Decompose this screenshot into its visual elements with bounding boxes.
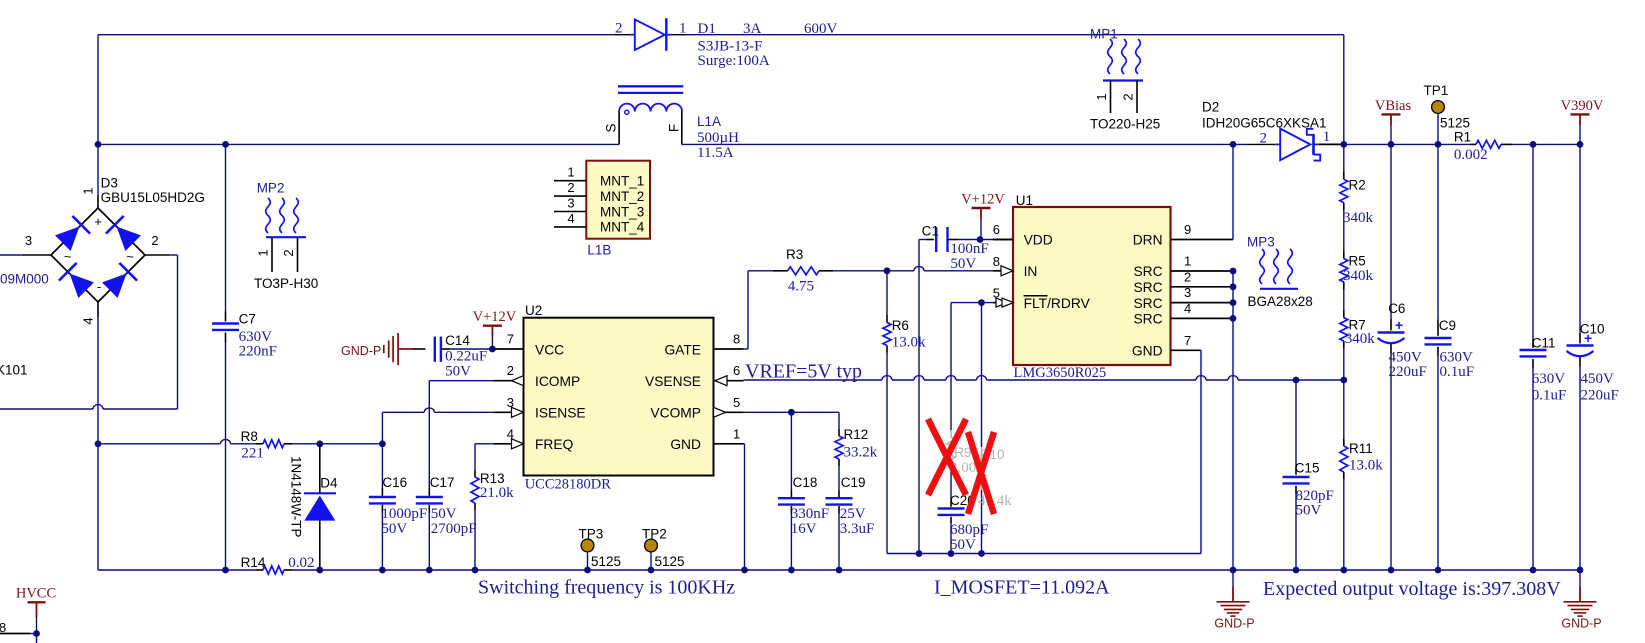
svg-text:UCC28180DR: UCC28180DR bbox=[525, 476, 612, 492]
pin 7 GND of U1 bbox=[1132, 333, 1201, 359]
part number LMG3650R025 bbox=[1014, 365, 1107, 381]
svg-text:Surge:100A: Surge:100A bbox=[698, 53, 770, 69]
svg-text:25V: 25V bbox=[840, 506, 866, 522]
resistor R14 bbox=[256, 566, 292, 574]
value 500uH bbox=[697, 130, 739, 146]
svg-text:V390V: V390V bbox=[1561, 98, 1604, 114]
pin 2 ICOMP of U2 bbox=[494, 363, 581, 389]
value Surge:100A bbox=[698, 53, 770, 69]
pin 2 of D2 bbox=[1260, 131, 1268, 147]
pin 3 SRC of U1 bbox=[1133, 285, 1233, 311]
wire: C10 vertical bbox=[1579, 144, 1581, 570]
capacitor C7 bbox=[212, 324, 239, 330]
wire: C16 vertical bbox=[381, 444, 383, 570]
value 820pF of C15 bbox=[1296, 488, 1334, 504]
wire: ISENSE net with hop bbox=[382, 408, 493, 444]
svg-text:GND-P: GND-P bbox=[1214, 617, 1254, 631]
junction bus at C6 bbox=[1388, 567, 1395, 574]
pin 4 SRC of U1 bbox=[1133, 301, 1233, 327]
label R2 bbox=[1349, 178, 1366, 193]
svg-text:GBU15L05HD2G: GBU15L05HD2G bbox=[101, 190, 205, 205]
resistor R7 bbox=[1340, 318, 1348, 341]
junction main rail at C7 bbox=[222, 141, 229, 148]
svg-text:FLT/RDRV: FLT/RDRV bbox=[1024, 296, 1091, 311]
wire: R6 vertical bbox=[886, 271, 888, 554]
svg-text:TO220-H25: TO220-H25 bbox=[1090, 116, 1160, 131]
svg-text:VCOMP: VCOMP bbox=[650, 406, 701, 421]
pin 3 of D3 bbox=[25, 233, 32, 248]
wire: FREQ net bbox=[475, 444, 494, 570]
wire: DRN riser bbox=[1232, 144, 1234, 239]
pin name MNT_1 bbox=[600, 174, 644, 189]
svg-text:C15: C15 bbox=[1295, 461, 1320, 476]
svg-text:3: 3 bbox=[567, 196, 574, 211]
svg-text:IDH20G65C6XKSA1: IDH20G65C6XKSA1 bbox=[1202, 116, 1327, 131]
label U2 bbox=[525, 303, 542, 318]
pin 2 of D3 bbox=[151, 233, 158, 248]
bridge rectifier D3 bbox=[22, 195, 169, 317]
svg-text:IN: IN bbox=[1024, 264, 1038, 279]
svg-text:C1: C1 bbox=[922, 223, 939, 238]
svg-text:0.1uF: 0.1uF bbox=[1440, 364, 1475, 380]
connector label K101 bbox=[0, 363, 28, 378]
pin 4 of L1B bbox=[554, 211, 586, 227]
svg-text:16V: 16V bbox=[791, 521, 817, 537]
diode D3 top-right bbox=[106, 216, 142, 252]
wire: top bus horizontal right of D1 bbox=[686, 34, 1344, 36]
junction R3/R6/IN node bbox=[884, 267, 891, 274]
label R1 bbox=[1454, 129, 1471, 144]
pin 1 GND of U2 bbox=[670, 426, 743, 452]
pin 4 FREQ of U2 bbox=[494, 426, 574, 452]
svg-text:R6: R6 bbox=[892, 318, 909, 333]
svg-text:MP1: MP1 bbox=[1090, 27, 1118, 42]
junction main rail at V390V bbox=[1577, 141, 1584, 148]
label C14 bbox=[445, 333, 470, 348]
svg-text:+: + bbox=[1395, 317, 1403, 333]
junction bus at C11 bbox=[1530, 567, 1537, 574]
label D3 bbox=[101, 175, 118, 190]
svg-text:MNT_4: MNT_4 bbox=[600, 220, 645, 235]
wire: top bus left vertical bbox=[97, 35, 99, 195]
junction bus at C19 bbox=[836, 567, 843, 574]
label R12 bbox=[844, 427, 869, 442]
svg-text:C16: C16 bbox=[382, 475, 407, 490]
junction bus at C15 bbox=[1293, 567, 1300, 574]
value 21.0k of R13 bbox=[480, 485, 514, 501]
svg-text:0.002: 0.002 bbox=[1454, 147, 1488, 163]
resistor R5 bbox=[1340, 259, 1348, 282]
label R3 bbox=[786, 247, 803, 262]
arrow ISENSE bbox=[512, 407, 524, 417]
svg-text:50V: 50V bbox=[950, 256, 976, 272]
connector L1B MNT block bbox=[586, 161, 650, 239]
svg-text:1N4148W-TP: 1N4148W-TP bbox=[289, 456, 304, 538]
value 630V of C7 bbox=[239, 329, 273, 345]
junction at C16 top bbox=[379, 440, 386, 447]
svg-text:340k: 340k bbox=[1343, 268, 1374, 284]
svg-text:220uF: 220uF bbox=[1389, 364, 1427, 380]
wire: R12/C19 vertical bbox=[838, 412, 840, 570]
mounting part MP1 bbox=[1090, 27, 1160, 132]
label R6 bbox=[892, 318, 909, 333]
junction bus at TP2 bbox=[648, 567, 655, 574]
svg-text:VCC: VCC bbox=[535, 342, 564, 357]
resistor R3 bbox=[773, 267, 833, 275]
value 0.02 of R14 bbox=[288, 555, 314, 571]
capacitor C20 bbox=[938, 509, 965, 515]
svg-text:VSENSE: VSENSE bbox=[645, 374, 701, 389]
svg-text:4: 4 bbox=[81, 317, 96, 324]
diode D3 bottom-left bbox=[59, 263, 95, 299]
resistor R11 bbox=[1340, 446, 1348, 472]
svg-text:220nF: 220nF bbox=[239, 343, 277, 359]
value 221 of R8 bbox=[241, 446, 264, 462]
junction main rail at DRN riser bbox=[1230, 141, 1237, 148]
wire: top bus right vertical bbox=[1343, 35, 1345, 145]
pin 1 of D3 bbox=[81, 187, 96, 194]
capacitor C11 bbox=[1520, 350, 1547, 356]
label D2 bbox=[1202, 100, 1219, 115]
value 0.1uF of C11 bbox=[1532, 388, 1567, 404]
test point TP1 bbox=[1432, 101, 1445, 145]
svg-text:R14: R14 bbox=[241, 555, 266, 570]
wire: C6 vertical bbox=[1390, 144, 1392, 570]
value GBU15L05HD2G bbox=[101, 190, 205, 205]
value 2.00k of R9 (gray) bbox=[950, 460, 984, 476]
svg-text:13.0k: 13.0k bbox=[1349, 457, 1383, 473]
net label VREF=5V typ bbox=[745, 360, 862, 382]
value 4.75 of R3 bbox=[788, 279, 814, 295]
svg-text:4: 4 bbox=[1184, 301, 1191, 316]
svg-text:C11: C11 bbox=[1532, 336, 1556, 351]
pin 6 VSENSE of U2 bbox=[645, 363, 743, 389]
svg-text:630V: 630V bbox=[1532, 371, 1566, 387]
pin 2 of D1 bbox=[615, 21, 623, 37]
wire: U1 GND loop bbox=[1200, 350, 1203, 553]
svg-text:ICOMP: ICOMP bbox=[535, 374, 580, 389]
resistor R12 bbox=[835, 436, 843, 459]
capacitor C9 bbox=[1425, 338, 1452, 344]
label R14 bbox=[241, 555, 266, 570]
svg-text:LMG3650R025: LMG3650R025 bbox=[1014, 365, 1107, 381]
junction VCOMP at C18 bbox=[788, 409, 795, 416]
value 50V of C15 bbox=[1296, 502, 1322, 518]
wire: bridge negative vertical bbox=[97, 317, 99, 570]
label R11 bbox=[1349, 441, 1373, 456]
svg-text:500µH: 500µH bbox=[697, 130, 739, 146]
capacitor C19 bbox=[826, 498, 853, 504]
wire: GATE riser bbox=[744, 271, 749, 349]
value 5125 of TP2 bbox=[655, 554, 685, 569]
svg-text:Expected output voltage is:397: Expected output voltage is:397.308V bbox=[1263, 578, 1561, 600]
junction VDD node bbox=[977, 236, 984, 243]
svg-text:SRC: SRC bbox=[1133, 296, 1162, 311]
value 2700pF of C17 bbox=[431, 521, 477, 537]
value 3.3uF of C19 bbox=[840, 521, 875, 537]
svg-text:2: 2 bbox=[507, 363, 514, 378]
junction HVCC bbox=[33, 630, 40, 637]
label D4 bbox=[320, 475, 338, 490]
op-amp U2 UCC28180DR body bbox=[524, 318, 714, 476]
junction bus at D4 bbox=[316, 567, 323, 574]
svg-text:GND-P: GND-P bbox=[1561, 617, 1601, 631]
value 220uF of C6 bbox=[1389, 364, 1427, 380]
resistor R6 bbox=[883, 323, 891, 346]
svg-text:2: 2 bbox=[281, 249, 296, 256]
test point TP3 bbox=[581, 539, 594, 570]
svg-text:S3JB-13-F: S3JB-13-F bbox=[698, 38, 763, 54]
svg-text:3.3uF: 3.3uF bbox=[840, 521, 875, 537]
svg-text:ISENSE: ISENSE bbox=[535, 406, 586, 421]
junction bus at C16 bbox=[379, 567, 386, 574]
svg-text:DRN: DRN bbox=[1133, 233, 1163, 248]
svg-text:C10: C10 bbox=[1580, 321, 1605, 336]
svg-text:50V: 50V bbox=[445, 364, 471, 380]
capacitor C10 bbox=[1567, 330, 1594, 356]
svg-text:SRC: SRC bbox=[1133, 312, 1162, 327]
label R9 (gray) bbox=[954, 445, 971, 460]
svg-text:U1: U1 bbox=[1016, 193, 1033, 208]
pin 7 VCC of U2 bbox=[494, 332, 565, 358]
mounting part MP2 bbox=[254, 180, 318, 291]
pin name MNT_2 bbox=[600, 189, 644, 204]
svg-text:5125: 5125 bbox=[655, 554, 685, 569]
pin 6 VDD of U1 bbox=[993, 222, 1053, 248]
label R10 (gray) bbox=[980, 447, 1005, 462]
svg-text:9: 9 bbox=[1184, 222, 1191, 237]
svg-text:2: 2 bbox=[1121, 93, 1136, 100]
mounting part MP3 bbox=[1247, 234, 1313, 309]
wire: C7 vertical upper bbox=[225, 144, 227, 321]
svg-text:FREQ: FREQ bbox=[535, 437, 574, 452]
wire: bottom ground bus bbox=[98, 569, 1580, 571]
svg-text:4: 4 bbox=[567, 211, 574, 226]
junction at D4 top bbox=[316, 440, 323, 447]
svg-text:TP2: TP2 bbox=[642, 527, 667, 542]
junction VSENSE at C15 bbox=[1293, 377, 1300, 384]
svg-text:13.0k: 13.0k bbox=[892, 334, 926, 350]
wire: U2 GND to bus bbox=[744, 444, 745, 570]
value 0.22uF of C14 bbox=[445, 349, 487, 365]
label C19 bbox=[841, 475, 866, 490]
svg-text:GATE: GATE bbox=[664, 342, 701, 357]
label R7 bbox=[1349, 318, 1366, 333]
junction bus at R11 bbox=[1340, 567, 1347, 574]
svg-text:50V: 50V bbox=[1296, 502, 1322, 518]
value 11.5A bbox=[697, 145, 734, 161]
junction SRC1 bbox=[1230, 268, 1237, 275]
svg-text:C19: C19 bbox=[841, 475, 866, 490]
svg-text:MNT_1: MNT_1 bbox=[600, 174, 644, 189]
power V+12V at U2 bbox=[473, 309, 517, 349]
svg-text:3: 3 bbox=[25, 233, 32, 248]
svg-text:33.2k: 33.2k bbox=[844, 444, 878, 460]
no-fit cross over R9 bbox=[928, 419, 966, 495]
svg-text:1: 1 bbox=[567, 165, 574, 180]
wire: R3 to IN with hop bbox=[833, 266, 1001, 270]
wire: main rail D2 to R1 bbox=[1344, 143, 1470, 145]
value 50V of C17 bbox=[431, 506, 457, 522]
svg-text:0.22uF: 0.22uF bbox=[445, 349, 487, 365]
value 5125 of TP3 bbox=[591, 554, 621, 569]
svg-text:L1A: L1A bbox=[697, 114, 721, 129]
value IDH20G65C6XKSA1 bbox=[1202, 116, 1327, 131]
junction bus at R13 bbox=[472, 567, 479, 574]
value 13.0k of R11 bbox=[1349, 457, 1383, 473]
svg-text:D2: D2 bbox=[1202, 100, 1219, 115]
label C1 bbox=[922, 223, 939, 238]
pin 3 of L1B bbox=[554, 196, 586, 212]
pin 5 VCOMP of U2 bbox=[650, 395, 743, 421]
pin 4 of D3 bbox=[81, 317, 96, 324]
wire: R2 chain vertical bbox=[1343, 144, 1345, 380]
svg-text:BGA28x28: BGA28x28 bbox=[1248, 294, 1313, 309]
svg-text:GND-P: GND-P bbox=[341, 344, 381, 358]
wire: R3 left bbox=[748, 270, 773, 272]
wire: inner ground line bbox=[887, 553, 1201, 555]
svg-text:340k: 340k bbox=[1343, 210, 1374, 226]
svg-text:2700pF: 2700pF bbox=[431, 521, 477, 537]
junction VSENSE at R7/R11 bbox=[1340, 377, 1347, 384]
svg-text:V+12V: V+12V bbox=[473, 309, 517, 325]
svg-text:1: 1 bbox=[1323, 129, 1331, 145]
svg-text:VDD: VDD bbox=[1024, 233, 1053, 248]
resistor R8 bbox=[256, 440, 292, 448]
value 49.4k of R10 (gray) bbox=[978, 493, 1012, 509]
svg-text:MP2: MP2 bbox=[257, 180, 285, 195]
wire: ICOMP net bbox=[429, 381, 493, 570]
value S3JB-13-F bbox=[698, 38, 763, 54]
junction SRC3 bbox=[1230, 299, 1237, 306]
wire: FLT net bbox=[951, 302, 996, 304]
junction bus at TP3 bbox=[584, 567, 591, 574]
capacitor C17 bbox=[416, 497, 443, 503]
capacitor C14 bbox=[412, 337, 492, 362]
label C16 bbox=[382, 475, 407, 490]
power ground GND-P right bbox=[1561, 570, 1601, 631]
power ground GND-P center bbox=[1214, 570, 1254, 631]
svg-text:8: 8 bbox=[733, 332, 740, 347]
wire: C11 vertical bbox=[1532, 144, 1534, 570]
value 340k of R5 bbox=[1343, 268, 1374, 284]
value 50V of C16 bbox=[381, 521, 407, 537]
pin 8 GATE of U2 bbox=[664, 332, 743, 358]
svg-text:50V: 50V bbox=[431, 506, 457, 522]
part number UCC28180DR bbox=[525, 476, 612, 492]
svg-text:R1: R1 bbox=[1454, 129, 1471, 144]
svg-text:2: 2 bbox=[151, 233, 158, 248]
label R5 bbox=[1349, 253, 1366, 268]
pin 2 of L1B bbox=[554, 180, 586, 196]
svg-text:R9: R9 bbox=[954, 445, 971, 460]
svg-text:GND: GND bbox=[670, 437, 701, 452]
arrow ICOMP bbox=[512, 376, 524, 386]
junction main rail at VBias bbox=[1388, 141, 1395, 148]
svg-text:100nF: 100nF bbox=[950, 241, 988, 257]
pin 1 of D1 bbox=[679, 21, 687, 37]
value 340k of R7 bbox=[1345, 331, 1376, 347]
svg-text:R2: R2 bbox=[1349, 178, 1366, 193]
label L1A bbox=[697, 114, 721, 129]
svg-text:1: 1 bbox=[1094, 93, 1109, 100]
svg-text:7: 7 bbox=[507, 332, 514, 347]
svg-text:MNT_2: MNT_2 bbox=[600, 189, 644, 204]
svg-text:340k: 340k bbox=[1345, 331, 1376, 347]
svg-text:2: 2 bbox=[567, 180, 574, 195]
pin 9 DRN of U1 bbox=[1133, 222, 1233, 248]
svg-text:5125: 5125 bbox=[591, 554, 621, 569]
label TP1 bbox=[1424, 83, 1449, 98]
wire: VSENSE line with hops bbox=[744, 376, 1344, 380]
svg-text:450V: 450V bbox=[1581, 371, 1615, 387]
label C7 bbox=[239, 312, 256, 327]
junction SRC4 bbox=[1230, 315, 1237, 322]
power ground GND-P left bbox=[341, 333, 412, 365]
svg-text:~: ~ bbox=[64, 249, 72, 264]
power VBias bbox=[1375, 98, 1412, 144]
svg-text:1: 1 bbox=[679, 21, 687, 37]
test point TP2 bbox=[645, 539, 658, 570]
svg-text:1: 1 bbox=[256, 249, 271, 256]
core of L1A bbox=[618, 86, 683, 93]
svg-text:GND: GND bbox=[1132, 344, 1163, 359]
value 0.1uF of C9 bbox=[1440, 364, 1475, 380]
wire: AC input left bbox=[0, 254, 22, 256]
junction R8 line at bridge vertical bbox=[95, 440, 102, 447]
svg-text:C9: C9 bbox=[1439, 318, 1456, 333]
junction bus at bridge bbox=[222, 567, 229, 574]
pin 3 ISENSE of U2 bbox=[494, 395, 586, 421]
svg-text:HVCC: HVCC bbox=[16, 585, 56, 601]
svg-text:R11: R11 bbox=[1349, 441, 1373, 456]
diode D4 1N4148W-TP bbox=[304, 444, 336, 570]
svg-text:1: 1 bbox=[1184, 254, 1191, 269]
arrow VCOMP bbox=[714, 407, 726, 417]
svg-text:-: - bbox=[97, 279, 101, 294]
label U1 bbox=[1016, 193, 1033, 208]
svg-text:U2: U2 bbox=[525, 303, 542, 318]
wire: R10 vertical bbox=[981, 303, 983, 554]
junction C1 ground bbox=[916, 550, 923, 557]
bridge polarity marks bbox=[64, 214, 134, 294]
wire: R9/C20 vertical bbox=[950, 303, 952, 554]
connector value 09M000 bbox=[0, 272, 49, 287]
pin name MNT_4 bbox=[600, 220, 645, 235]
pin 1 SRC of U1 bbox=[1133, 254, 1233, 280]
svg-text:50V: 50V bbox=[950, 537, 976, 553]
wire: AC input right + drop bbox=[169, 255, 178, 409]
svg-text:0.02: 0.02 bbox=[288, 555, 314, 571]
resistor R10 (excluded) bbox=[978, 447, 986, 490]
value 1000pF of C16 bbox=[381, 506, 427, 522]
svg-text:C18: C18 bbox=[793, 475, 818, 490]
svg-text:R5: R5 bbox=[1349, 253, 1366, 268]
label C11 bbox=[1532, 336, 1556, 351]
wire: VCOMP net bbox=[744, 411, 840, 413]
value 13.0k of R6 bbox=[892, 334, 926, 350]
pin 8 IN of U1 bbox=[993, 254, 1038, 279]
svg-text:L1B: L1B bbox=[587, 243, 611, 258]
value 450V of C6 bbox=[1389, 350, 1423, 366]
diode D3 top-left bbox=[54, 216, 90, 252]
annotation switching frequency bbox=[478, 576, 735, 598]
svg-text:2: 2 bbox=[1184, 269, 1191, 284]
label D1 / 3A / 600V bbox=[698, 21, 838, 37]
power HVCC bbox=[0, 585, 56, 643]
wire: lower AC return with hop bbox=[0, 405, 178, 409]
label C6 bbox=[1388, 301, 1405, 316]
